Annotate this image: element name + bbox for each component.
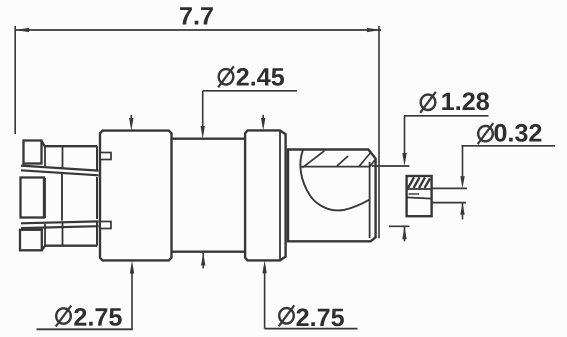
label dia 2.75 first diameter symbol	[56, 306, 72, 327]
label dia 0.32 diameter symbol	[478, 123, 494, 144]
label dia 2.75 first digits	[74, 308, 121, 326]
finger vertical at 62.5 top	[62, 146, 64, 169]
label dia 2.45 diameter symbol	[218, 66, 234, 87]
finger vertical at 97 middle	[96, 177, 98, 219]
finger vertical at 62.5 bottom	[62, 223, 64, 246]
dimension 7.7 left arrow	[15, 28, 29, 32]
contact pin short inner line	[409, 193, 420, 195]
center bore bottom extension line	[389, 225, 409, 227]
contact pin detail body	[407, 176, 432, 216]
end body bore inner edge	[369, 162, 371, 238]
lower slot line 2	[21, 226, 99, 228]
dia 1.28 lower arrow stem	[404, 226, 406, 241]
finger section bottom edge	[42, 246, 97, 250]
contact pin wire top line	[432, 187, 467, 189]
finger lower front box	[20, 230, 42, 251]
end body hatch band bottom line	[301, 166, 370, 168]
contact pin hatch stroke 4	[425, 179, 431, 189]
broken-out section curve	[300, 150, 369, 210]
flange 1 top arrowhead	[129, 118, 133, 131]
mid cylinder bottom line	[172, 251, 246, 253]
mid cylinder top line	[172, 138, 246, 140]
lower slot line 1	[21, 221, 99, 223]
flange 2 top arrow stem	[262, 115, 264, 120]
dia 2.75 second underline	[265, 328, 358, 330]
bore mouth chamfer	[370, 159, 376, 167]
flange 2 inner step line	[279, 130, 281, 260]
dia 2.45 lower arrowhead	[201, 253, 205, 266]
finger vertical at 97 bottom	[96, 221, 98, 246]
finger middle front box	[21, 178, 45, 218]
flange 1 upper notch tab	[100, 153, 111, 160]
finger upper front box	[24, 141, 42, 164]
dimension 7.7 line	[15, 29, 381, 31]
dia 2.75 first leader stem	[131, 271, 133, 329]
finger vertical at 97 top	[96, 146, 98, 171]
contact pin lower inner line	[407, 197, 432, 198]
dia 0.32 upper arrow stem	[462, 146, 464, 177]
contact pin hatch stroke 2	[414, 178, 420, 189]
dia 2.75 second leader arrowhead	[262, 260, 266, 273]
dia 1.28 lower arrowhead	[402, 226, 406, 239]
contact pin wire bottom line	[432, 202, 466, 204]
dia 2.45 lower arrow stem	[202, 253, 204, 269]
contact pin hatch stroke 3	[419, 178, 425, 189]
dia 2.45 leader underline	[203, 90, 297, 92]
label dia 1.28 diameter symbol	[420, 92, 436, 113]
flange 2 top arrowhead	[261, 118, 265, 130]
dia 2.75 first underline	[37, 328, 133, 330]
dia 1.28 leader underline	[404, 115, 489, 117]
upper slot line 2	[21, 170, 99, 175]
finger section top edge	[42, 141, 98, 146]
label dia 2.75 second digits	[297, 308, 344, 326]
finger vertical at 62 middle	[61, 174, 63, 221]
finger vertical at 45 middle	[44, 178, 46, 218]
flange 2 (second 2.75 collar)	[245, 130, 286, 260]
label dia 1.28 digits	[442, 92, 489, 110]
dia 2.75 first leader arrowhead	[130, 261, 134, 274]
dia 0.32 leader underline	[462, 145, 556, 147]
hatch stroke 3	[359, 152, 372, 167]
label dia 0.32 digits	[494, 124, 541, 142]
finger vertical at 45 bottom	[44, 224, 46, 246]
hatch stroke 2	[337, 156, 348, 166]
extension line left of 7.7	[14, 26, 16, 134]
label dia 2.45 digits	[237, 68, 284, 86]
flange 1 top arrow stem	[130, 115, 132, 120]
dia 1.28 upper arrow stem	[404, 116, 406, 155]
flange 1 (first 2.75 collar)	[100, 131, 172, 261]
contact pin hatch band line	[407, 188, 432, 190]
dia 1.28 upper arrowhead	[402, 153, 406, 166]
extension line right of 7.7	[378, 26, 380, 238]
dimension 7.7 right arrow	[367, 28, 381, 32]
hatch stroke 1	[302, 151, 324, 168]
dia 0.32 lower arrowhead	[460, 203, 464, 215]
upper slot line 1	[21, 166, 99, 171]
finger vertical at 45 top	[44, 146, 46, 167]
dia 0.32 lower arrow stem	[462, 203, 464, 220]
end body outline	[288, 150, 376, 242]
label dia 2.75 second diameter symbol	[279, 305, 295, 326]
dia 2.45 arrow stem	[202, 91, 204, 128]
flange 1 lower notch tab	[100, 222, 111, 229]
center bore top line	[372, 165, 409, 167]
label 7.7	[180, 7, 213, 24]
contact pin hatch stroke 1	[408, 178, 414, 189]
dia 2.75 second leader stem	[264, 271, 266, 329]
dia 2.45 upper arrowhead	[201, 126, 205, 139]
dia 0.32 upper arrowhead	[460, 176, 464, 188]
